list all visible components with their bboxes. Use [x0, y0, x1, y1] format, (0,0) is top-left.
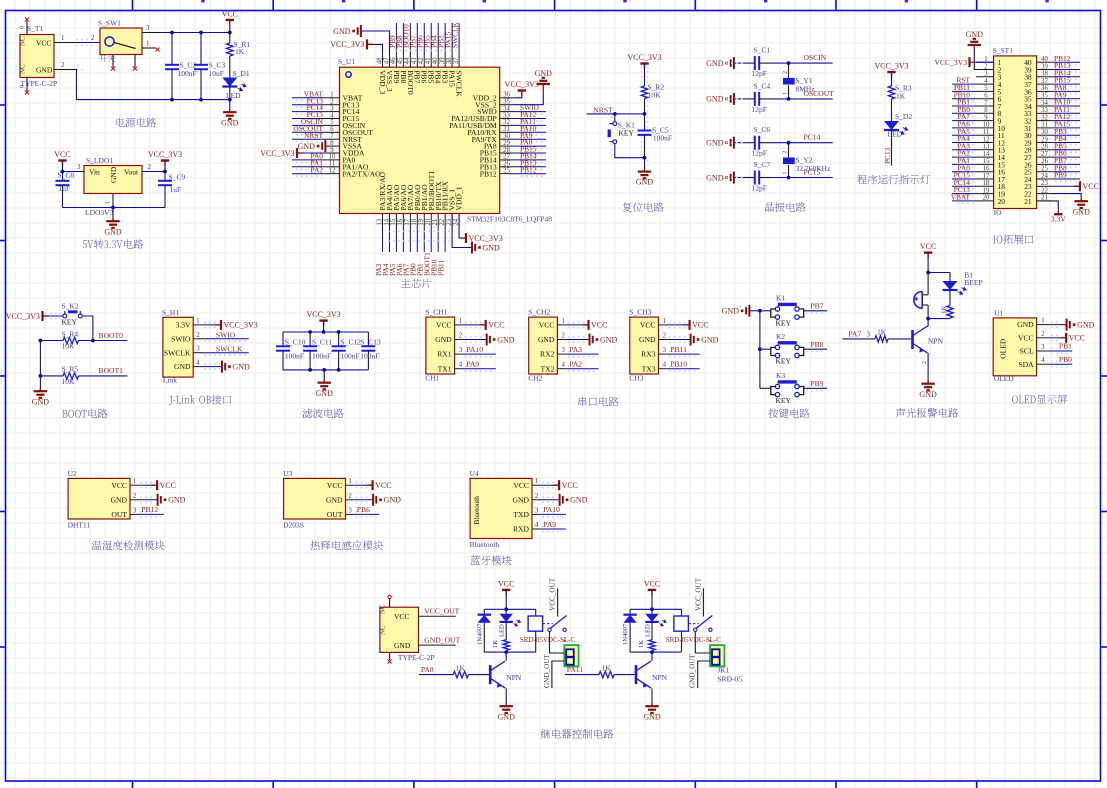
net label PC13 vertical	[883, 147, 892, 166]
svg-text:S_CH2: S_CH2	[528, 308, 550, 317]
svg-text:NC: NC	[19, 36, 27, 46]
svg-text:Link: Link	[163, 376, 177, 385]
svg-text:PA10: PA10	[543, 505, 560, 514]
svg-text:PA9: PA9	[466, 360, 479, 369]
title program run indicator	[857, 175, 930, 185]
svg-text:1N4007: 1N4007	[476, 623, 483, 645]
svg-text:PB12: PB12	[520, 165, 537, 174]
title bluetooth module	[470, 555, 511, 565]
resistor R5 10K	[39, 365, 128, 386]
svg-text:S_C13: S_C13	[360, 337, 381, 346]
svg-text:2: 2	[91, 34, 95, 42]
ground GND at U1 pin47 VSS_3	[333, 25, 389, 54]
title lvbo dianlu	[302, 409, 343, 419]
svg-text:SWCLK: SWCLK	[164, 348, 191, 357]
svg-text:DHT11: DHT11	[68, 520, 91, 529]
svg-text:PA11: PA11	[567, 665, 584, 674]
net GND_OUT at T2	[419, 635, 461, 645]
svg-text:GND: GND	[233, 362, 251, 371]
svg-text:1K: 1K	[235, 47, 245, 56]
svg-text:VCC: VCC	[692, 321, 708, 330]
mcu U1 top pins and labels	[376, 21, 460, 67]
svg-text:38: 38	[446, 57, 453, 64]
crystal Y2 32.768KHz	[783, 143, 831, 178]
svg-text:D203S: D203S	[283, 520, 304, 529]
header ST1 IO port body	[993, 46, 1037, 217]
svg-text:GND_OUT: GND_OUT	[543, 653, 551, 688]
svg-text:GND: GND	[168, 496, 186, 505]
svg-text:S_H1: S_H1	[162, 308, 179, 317]
svg-text:S_SW1: S_SW1	[98, 19, 121, 28]
svg-text:GND_OUT: GND_OUT	[689, 653, 697, 688]
serial header CH1	[425, 308, 454, 383]
svg-text:VCC: VCC	[920, 242, 936, 251]
svg-text:GND_OUT: GND_OUT	[424, 635, 460, 644]
svg-text:40: 40	[432, 57, 439, 64]
svg-text:2: 2	[148, 163, 152, 171]
net VCC_OUT at T2	[419, 607, 460, 617]
svg-text:GND: GND	[333, 27, 351, 36]
ground GND power circuit	[221, 100, 239, 128]
capacitor C7 12pF and PC15 net	[706, 160, 833, 193]
svg-text:BOOT1: BOOT1	[99, 366, 124, 375]
ground GND filter	[316, 370, 334, 398]
mcu U1 pin names	[343, 70, 498, 210]
svg-text:1uF: 1uF	[170, 185, 182, 194]
wire LDO Vout to VCC_3V3	[142, 163, 167, 173]
power flag VCC alarm	[920, 242, 936, 272]
title anjian dianlu	[768, 408, 809, 418]
svg-text:VCC: VCC	[36, 39, 51, 48]
svg-text:BEEP: BEEP	[964, 278, 982, 287]
svg-text:1N4007: 1N4007	[622, 623, 629, 645]
mcu U1 right pins and labels	[500, 92, 546, 177]
svg-text:RX3: RX3	[641, 350, 656, 359]
svg-text:20: 20	[425, 218, 432, 225]
svg-text:VCC_OUT: VCC_OUT	[694, 577, 702, 611]
crystal Y1 8MHz	[783, 63, 816, 99]
svg-text:46: 46	[390, 57, 397, 64]
svg-text:0: 0	[19, 85, 26, 88]
svg-text:GND: GND	[535, 69, 553, 78]
svg-text:U3: U3	[283, 469, 292, 478]
svg-text:S_LDO1: S_LDO1	[86, 156, 113, 165]
svg-text:GND: GND	[1073, 207, 1091, 216]
svg-text:1K: 1K	[492, 640, 499, 648]
title 5V to 3.3V	[83, 239, 143, 249]
svg-text:OLED: OLED	[994, 374, 1015, 383]
svg-text:0: 0	[19, 26, 26, 29]
svg-text:GND: GND	[636, 178, 654, 187]
module U4 Bluetooth	[470, 469, 532, 549]
mcu U1 STM32F103C8T6 body	[338, 57, 552, 224]
svg-text:21: 21	[432, 219, 439, 226]
svg-text:2: 2	[459, 333, 463, 340]
svg-text:GND: GND	[600, 335, 618, 344]
svg-text:47: 47	[383, 57, 390, 64]
svg-text:NC: NC	[19, 64, 27, 74]
svg-text:33: 33	[1041, 107, 1048, 114]
svg-text:22: 22	[439, 218, 446, 225]
svg-text:VCC_3V3: VCC_3V3	[627, 53, 661, 62]
svg-text:24: 24	[1041, 173, 1048, 180]
svg-text:3: 3	[561, 347, 565, 354]
svg-text:2: 2	[783, 71, 789, 74]
svg-text:TX1: TX1	[438, 364, 452, 373]
svg-text:3: 3	[535, 507, 539, 514]
svg-text:1K: 1K	[638, 640, 645, 648]
ground GND boot	[39, 388, 41, 391]
svg-text:PB7: PB7	[810, 301, 823, 310]
svg-text:36: 36	[1041, 85, 1048, 92]
svg-text:20: 20	[983, 195, 990, 202]
svg-text:S_C10: S_C10	[285, 337, 306, 346]
pushbutton K1 KEY	[760, 293, 827, 327]
resistor R1 1K	[227, 33, 251, 73]
wire SW1 pin3 to VCC node	[142, 24, 232, 34]
svg-text:K3: K3	[776, 371, 785, 380]
svg-text:GND: GND	[174, 362, 191, 371]
svg-text:PA9: PA9	[543, 520, 556, 529]
svg-text:BOOT0: BOOT0	[99, 331, 124, 340]
ground GND reset	[636, 158, 654, 187]
power flag VCC_3V3 filter	[306, 310, 340, 332]
svg-text:2: 2	[922, 361, 928, 364]
svg-text:3: 3	[459, 347, 463, 354]
svg-text:PB0: PB0	[1059, 355, 1072, 364]
svg-text:PA8: PA8	[421, 665, 434, 674]
svg-text:25: 25	[1041, 166, 1048, 173]
net 3.3V at ST1 pin21	[1037, 201, 1067, 224]
svg-text:S_ST1: S_ST1	[993, 46, 1014, 55]
svg-text:VCC: VCC	[513, 481, 529, 490]
svg-text:25: 25	[503, 168, 510, 175]
svg-text:GND: GND	[643, 712, 661, 721]
serial header CH2	[528, 308, 557, 383]
svg-text:4: 4	[663, 362, 667, 369]
svg-text:VCC_3V3: VCC_3V3	[6, 312, 40, 321]
svg-text:3: 3	[984, 71, 988, 78]
svg-text:26: 26	[1041, 158, 1048, 165]
svg-text:OUT: OUT	[327, 510, 343, 519]
ground GND at OLED pin1	[1050, 319, 1095, 331]
svg-text:38: 38	[1041, 71, 1048, 78]
svg-text:GND: GND	[538, 335, 555, 344]
power flag VCC LDO input	[54, 150, 70, 169]
svg-text:LED: LED	[888, 130, 903, 139]
svg-text:3: 3	[1041, 344, 1045, 351]
svg-text:NC: NC	[379, 625, 387, 635]
display U1 OLED body	[993, 308, 1036, 383]
svg-text:PA2: PA2	[311, 165, 324, 174]
LED D3 alarm	[943, 273, 967, 303]
svg-text:16: 16	[397, 218, 404, 225]
svg-text:VCC: VCC	[591, 321, 607, 330]
svg-text:GND: GND	[570, 496, 588, 505]
svg-text:S_U1: S_U1	[338, 57, 355, 66]
svg-text:OSCIN: OSCIN	[804, 53, 827, 62]
svg-text:NPN: NPN	[652, 673, 668, 682]
svg-text:PA3: PA3	[569, 345, 582, 354]
svg-text:28: 28	[1041, 144, 1048, 151]
svg-text:S_D1: S_D1	[233, 69, 250, 78]
svg-text:1: 1	[105, 201, 112, 204]
svg-text:VCC: VCC	[327, 481, 343, 490]
svg-text:10uF: 10uF	[209, 69, 224, 78]
svg-text:PA2: PA2	[569, 360, 582, 369]
svg-text:PA7: PA7	[848, 330, 861, 339]
svg-text:VCC_3V3: VCC_3V3	[306, 310, 340, 319]
svg-text:GND: GND	[919, 390, 937, 399]
svg-text:VCC: VCC	[640, 321, 656, 330]
svg-text:8: 8	[984, 107, 988, 114]
svg-text:K2: K2	[776, 332, 785, 341]
svg-text:GND: GND	[497, 335, 515, 344]
relay driver 2 with diode 1N4007 LED coil NPN	[644, 579, 660, 609]
svg-text:PC15: PC15	[804, 168, 821, 177]
svg-text:22: 22	[1041, 187, 1048, 194]
resistor R4 10K	[39, 330, 128, 351]
svg-text:16: 16	[983, 166, 990, 173]
svg-text:1uF: 1uF	[59, 184, 71, 193]
svg-text:2: 2	[133, 493, 137, 500]
svg-text:VCC_3V3: VCC_3V3	[469, 234, 503, 243]
svg-text:2: 2	[196, 332, 200, 339]
svg-text:10K: 10K	[62, 377, 76, 386]
svg-text:21: 21	[1024, 197, 1032, 206]
resistor R7 1K alarm base	[842, 328, 911, 343]
svg-text:TX2: TX2	[540, 364, 554, 373]
svg-text:NC: NC	[379, 604, 387, 614]
ground GND at U1 VSS_1 pin23	[452, 214, 500, 254]
svg-text:GND: GND	[394, 641, 411, 650]
wire LDO GND pin1 and bottom rail	[63, 194, 166, 210]
LED D1	[222, 69, 250, 100]
svg-text:GND: GND	[1077, 320, 1095, 329]
svg-text:NPN: NPN	[506, 673, 522, 682]
svg-text:VCC_3V3: VCC_3V3	[935, 58, 968, 67]
svg-text:KEY: KEY	[776, 357, 792, 366]
svg-text:S_C7: S_C7	[754, 160, 771, 169]
header H1 pin lines and numbers	[193, 318, 202, 367]
mcu U1 bottom pins and labels	[374, 214, 460, 277]
svg-text:TYPE-C-2P: TYPE-C-2P	[21, 79, 58, 88]
svg-text:SWIO: SWIO	[216, 330, 236, 339]
svg-text:34: 34	[1041, 100, 1048, 107]
svg-text:SCL: SCL	[1020, 347, 1034, 356]
power VCC_3V3 at U1 VDD_2 pin36	[505, 80, 539, 98]
svg-text:3: 3	[77, 163, 81, 171]
svg-text:IO: IO	[994, 208, 1002, 217]
power flag VCC_3V3 and GND at ST1 pins 1-3	[935, 30, 994, 70]
svg-text:45: 45	[397, 57, 404, 64]
svg-text:4: 4	[459, 362, 463, 369]
svg-text:37: 37	[1041, 78, 1048, 85]
svg-text:KEY: KEY	[62, 318, 78, 327]
svg-text:S_D2: S_D2	[895, 112, 912, 121]
svg-text:2: 2	[561, 333, 565, 340]
svg-text:1: 1	[783, 172, 789, 175]
svg-text:LED: LED	[499, 624, 506, 637]
svg-text:1: 1	[459, 318, 462, 325]
svg-text:PB1: PB1	[1059, 342, 1072, 351]
svg-text:VCC: VCC	[562, 481, 578, 490]
svg-text:15: 15	[983, 158, 990, 165]
svg-text:JK1: JK1	[717, 666, 729, 675]
capacitor C13 100nF	[360, 332, 381, 370]
svg-text:U2: U2	[68, 469, 77, 478]
svg-text:12pF: 12pF	[752, 105, 767, 114]
net SWIO at H1 pin2	[202, 330, 249, 341]
module U3 D203S PIR	[283, 469, 345, 529]
wire boot left rail	[39, 341, 41, 389]
svg-text:PC13: PC13	[883, 147, 892, 164]
svg-text:RX1: RX1	[437, 350, 452, 359]
svg-text:GND: GND	[966, 30, 984, 39]
transistor Q1 NPN alarm	[913, 319, 944, 369]
title relay control circuit	[541, 729, 614, 739]
svg-text:VCC: VCC	[488, 321, 504, 330]
svg-text:1: 1	[133, 478, 136, 485]
power VCC_3V3 at U1 pin48 VDD_3	[330, 39, 382, 54]
svg-text:VCC: VCC	[1018, 333, 1034, 342]
title fuwei dianlu	[623, 202, 664, 212]
svg-text:37: 37	[453, 57, 460, 64]
title alarm circuit	[896, 408, 958, 418]
svg-text:VCC_OUT: VCC_OUT	[549, 577, 557, 611]
svg-text:Bluetooth: Bluetooth	[473, 496, 481, 525]
svg-text:SRD-05VDC-SL-C: SRD-05VDC-SL-C	[666, 636, 722, 644]
svg-text:1K: 1K	[941, 304, 949, 314]
svg-text:PB11: PB11	[670, 345, 687, 354]
svg-text:12pF: 12pF	[752, 69, 767, 78]
svg-text:SRD-05VDC-SL-C: SRD-05VDC-SL-C	[520, 636, 576, 644]
svg-text:42: 42	[418, 57, 425, 64]
svg-text:4: 4	[1041, 357, 1045, 364]
svg-text:2: 2	[535, 493, 539, 500]
svg-text:1K: 1K	[896, 92, 906, 101]
svg-text:1: 1	[535, 478, 538, 485]
svg-text:GND: GND	[111, 495, 128, 504]
svg-text:GND: GND	[722, 307, 740, 316]
svg-text:VCC_3V3: VCC_3V3	[148, 150, 182, 159]
svg-text:S_C4: S_C4	[754, 81, 771, 90]
wire T1 VCC to SW1 pin2	[54, 34, 100, 46]
svg-text:17: 17	[983, 173, 990, 180]
svg-text:3.3V: 3.3V	[1051, 215, 1066, 224]
svg-text:PB12: PB12	[141, 505, 158, 514]
svg-text:GND: GND	[706, 59, 724, 68]
svg-text:SRD-05: SRD-05	[717, 675, 742, 684]
title BOOT circuit	[63, 409, 108, 419]
svg-text:18: 18	[983, 180, 990, 187]
capacitor C9 1uF	[158, 172, 185, 208]
svg-text:35: 35	[1041, 93, 1048, 100]
resistor R2 10K	[641, 82, 664, 114]
ground GND at ST1 pin22	[1052, 194, 1090, 217]
svg-text:100nF: 100nF	[360, 352, 379, 361]
svg-text:30: 30	[1041, 129, 1048, 136]
svg-text:VCC: VCC	[54, 150, 70, 159]
svg-text:GND: GND	[1017, 320, 1034, 329]
power VCC_3V3 at U1 VDD_1 pin24	[459, 214, 503, 244]
svg-text:PB11: PB11	[437, 260, 446, 276]
svg-text:GND: GND	[104, 227, 122, 236]
svg-text:2: 2	[783, 151, 789, 154]
svg-text:6: 6	[984, 93, 988, 100]
svg-text:32: 32	[1041, 114, 1048, 121]
label SW1 kaiguan	[99, 54, 115, 62]
svg-text:OUT: OUT	[111, 510, 127, 519]
svg-text:3: 3	[133, 507, 137, 514]
svg-text:SWIO: SWIO	[171, 334, 191, 343]
svg-text:19: 19	[418, 218, 425, 225]
svg-text:KEY: KEY	[619, 129, 635, 138]
key left rail	[759, 311, 761, 389]
svg-text:GND: GND	[483, 243, 501, 252]
svg-text:VCC_3V3: VCC_3V3	[330, 40, 364, 49]
selection dots reset stem	[612, 66, 648, 166]
capacitor C2 100nF	[165, 33, 197, 100]
svg-text:2: 2	[663, 333, 667, 340]
svg-text:VCC_3V3: VCC_3V3	[260, 149, 294, 158]
svg-text:SWCLK: SWCLK	[450, 21, 459, 48]
svg-text:GND: GND	[326, 495, 343, 504]
wire NRST net	[587, 105, 647, 115]
svg-text:4: 4	[535, 522, 539, 529]
serial header CH3	[629, 308, 658, 383]
svg-text:VCC: VCC	[1083, 182, 1099, 191]
svg-text:1: 1	[146, 40, 150, 48]
power VCC_3V3 at U1 VDDA pin9	[260, 148, 326, 158]
svg-text:TXD: TXD	[513, 510, 529, 519]
svg-text:VCC_OUT: VCC_OUT	[424, 607, 459, 616]
svg-text:2: 2	[1041, 331, 1045, 338]
svg-text:14: 14	[983, 151, 990, 158]
svg-text:SWCLK: SWCLK	[454, 70, 463, 97]
header H1 J-Link body	[162, 308, 193, 385]
svg-text:S_K2: S_K2	[62, 302, 79, 311]
svg-text:3.3V: 3.3V	[176, 321, 191, 330]
svg-text:VCC: VCC	[436, 321, 452, 330]
svg-text:NRST: NRST	[593, 105, 613, 114]
svg-text:10: 10	[983, 122, 990, 129]
svg-text:PB10: PB10	[670, 360, 687, 369]
svg-text:17: 17	[404, 218, 411, 225]
svg-text:12pF: 12pF	[752, 184, 767, 193]
svg-text:3: 3	[663, 347, 667, 354]
svg-text:SDA: SDA	[1018, 360, 1034, 369]
svg-text:PA2/TX/AO: PA2/TX/AO	[343, 169, 382, 178]
module U2 DHT11 temperature humidity	[68, 469, 130, 529]
svg-text:U4: U4	[470, 469, 479, 478]
svg-text:27: 27	[1041, 151, 1048, 158]
power flag VCC_3V3 at H1 pin1	[202, 320, 258, 330]
svg-text:Vin: Vin	[89, 168, 100, 177]
svg-text:PB8: PB8	[810, 340, 823, 349]
svg-text:29: 29	[1041, 136, 1048, 143]
svg-text:13: 13	[376, 218, 383, 225]
svg-text:TYPE-C-2P: TYPE-C-2P	[398, 653, 435, 662]
svg-text:GND: GND	[109, 166, 118, 183]
svg-text:1: 1	[783, 92, 789, 95]
svg-text:VCC_3V3: VCC_3V3	[224, 321, 258, 330]
title J-Link OB port	[169, 395, 231, 405]
capacitor C1 12pF and OSCIN net	[706, 46, 833, 79]
svg-text:OLED: OLED	[999, 338, 1008, 359]
title dianyuan dianlu	[116, 118, 156, 128]
zone digit remnants top edge	[201, 0, 1049, 2]
